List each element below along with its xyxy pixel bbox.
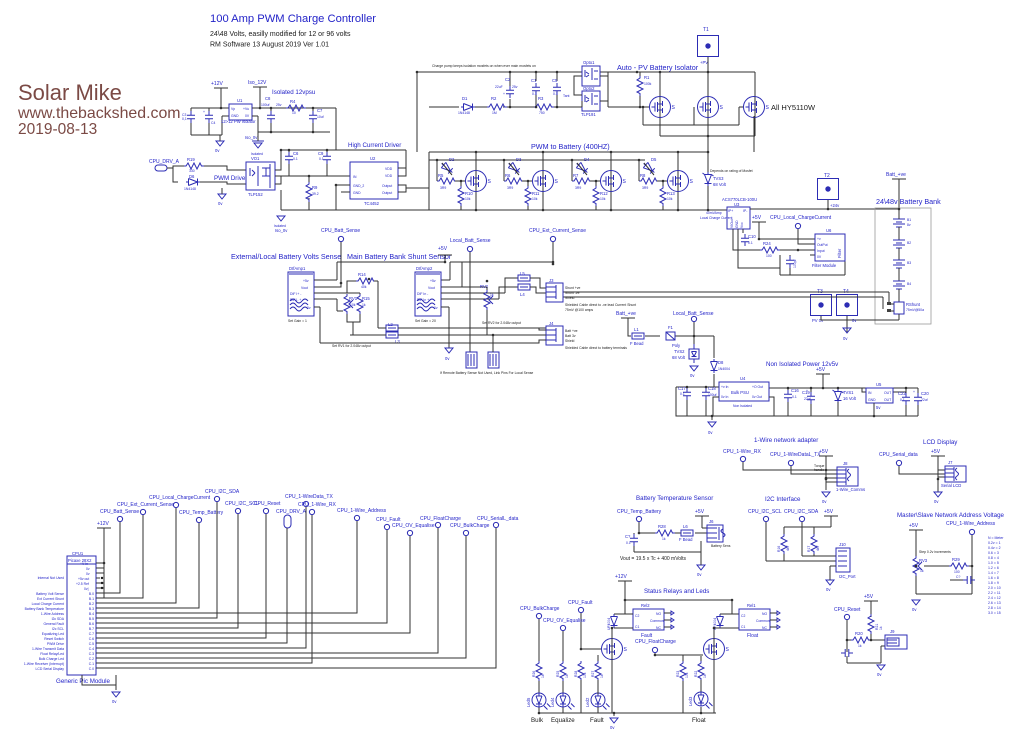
svg-text:C16: C16 xyxy=(791,388,799,393)
svg-text:10k: 10k xyxy=(532,197,538,201)
diode D7 flyback xyxy=(717,614,724,628)
svg-text:+O Out: +O Out xyxy=(752,385,763,389)
wire i2c xyxy=(766,522,836,561)
svg-text:0.6 = 3: 0.6 = 3 xyxy=(988,551,999,555)
svg-text:+5V: +5V xyxy=(819,449,829,455)
resistor R3 xyxy=(534,104,554,110)
wire fet1 group xyxy=(437,152,476,210)
svg-text:100 Amp PWM Charge Controller: 100 Amp PWM Charge Controller xyxy=(210,13,376,25)
svg-text:C.5: C.5 xyxy=(89,642,94,646)
IC U4 bulk psu xyxy=(719,382,769,401)
svg-text:R19: R19 xyxy=(187,157,195,162)
svg-text:GND_2: GND_2 xyxy=(353,184,364,188)
svg-text:0v: 0v xyxy=(934,499,939,504)
svg-text:Set Gain = 20: Set Gain = 20 xyxy=(415,319,436,323)
svg-text:C5: C5 xyxy=(552,78,558,83)
ground T4 xyxy=(843,328,851,333)
svg-text:LCD Display: LCD Display xyxy=(923,439,958,446)
svg-text:C20: C20 xyxy=(921,391,929,396)
svg-text:C6: C6 xyxy=(293,151,299,156)
IC U5 regulator xyxy=(866,388,893,403)
svg-text:16 Volt: 16 Volt xyxy=(843,396,857,401)
svg-text:CPU_Ext_Current_Sense: CPU_Ext_Current_Sense xyxy=(529,228,586,234)
svg-text:CPU_Serial_data: CPU_Serial_data xyxy=(879,452,918,458)
svg-text:+5V: +5V xyxy=(931,449,941,455)
svg-text:Filter: Filter xyxy=(837,248,842,258)
svg-text:10k: 10k xyxy=(465,197,471,201)
svg-text:R15: R15 xyxy=(362,296,370,301)
resistor R21 xyxy=(868,614,874,634)
svg-text:NC: NC xyxy=(762,626,767,630)
svg-text:U3: U3 xyxy=(734,202,740,207)
svg-text:ACS770LCB-100U: ACS770LCB-100U xyxy=(722,197,757,202)
wire pwm bottom rail xyxy=(429,209,727,211)
svg-text:CPU1: CPU1 xyxy=(72,551,84,556)
svg-text:0.1: 0.1 xyxy=(748,241,753,245)
ground tvs2 xyxy=(690,366,698,371)
svg-text:CPU_Fault: CPU_Fault xyxy=(568,600,593,606)
wire U2 gnd pins xyxy=(336,185,350,210)
shunt RShunt xyxy=(894,302,904,314)
wire fan b5 xyxy=(96,502,217,618)
ground temp xyxy=(697,565,705,570)
wire fet2 group xyxy=(504,152,543,210)
svg-text:Rel1: Rel1 xyxy=(747,603,756,608)
svg-text:Input: Input xyxy=(817,249,825,253)
wire isolator gate bus xyxy=(608,72,755,136)
svg-text:R25: R25 xyxy=(556,671,560,677)
svg-text:4k7: 4k7 xyxy=(816,545,820,551)
svg-text:1k: 1k xyxy=(362,303,366,307)
wire fan c2 xyxy=(96,536,466,658)
battery B2 xyxy=(893,240,905,248)
svg-text:CPU_Ext_Current_Sense: CPU_Ext_Current_Sense xyxy=(117,502,174,508)
capacitor C8 xyxy=(267,111,275,123)
svg-text:Generic Pic Module: Generic Pic Module xyxy=(56,678,111,685)
svg-text:40k: 40k xyxy=(361,285,367,289)
wire batt sense to amp1 vout xyxy=(314,242,341,287)
svg-text:+PV: +PV xyxy=(700,60,708,65)
wire batt feed xyxy=(628,321,714,387)
connector J6 battery sens xyxy=(707,525,723,542)
svg-text:D6: D6 xyxy=(189,174,195,179)
U1 dc-dc isolator xyxy=(229,104,252,120)
svg-text:Local Charge Current: Local Charge Current xyxy=(32,602,64,606)
svg-text:1N4148: 1N4148 xyxy=(458,111,470,115)
wire fan c4 xyxy=(96,507,306,648)
svg-text:+24v: +24v xyxy=(830,203,840,208)
wire U2 vdd pins xyxy=(398,150,406,176)
svg-text:Set RV2 for 2.048v output: Set RV2 for 2.048v output xyxy=(482,321,521,325)
relay Rel1 xyxy=(739,609,770,630)
svg-text:5v: 5v xyxy=(876,405,881,410)
svg-text:Master\Slave Network Address V: Master\Slave Network Address Voltage xyxy=(897,512,1005,519)
svg-text:10uf: 10uf xyxy=(317,115,324,119)
svg-text:24\48 Volts, easilly modified: 24\48 Volts, easilly modified for 12 or … xyxy=(210,31,351,38)
svg-text:GND: GND xyxy=(735,220,739,228)
svg-text:0v: 0v xyxy=(690,373,695,378)
svg-text:R12: R12 xyxy=(600,191,608,196)
svg-text:Vout: Vout xyxy=(428,286,435,290)
wire fan c3 xyxy=(96,528,438,653)
connector J8 1-wire xyxy=(837,467,858,486)
resistor R8 xyxy=(639,178,659,184)
svg-text:2019-08-13: 2019-08-13 xyxy=(18,121,97,138)
svg-text:2.4 = 12: 2.4 = 12 xyxy=(988,596,1001,600)
svg-text:TLP152: TLP152 xyxy=(248,192,263,197)
svg-text:100: 100 xyxy=(766,254,772,258)
svg-text:Batt 3v: Batt 3v xyxy=(565,334,576,338)
svg-text:TLP191: TLP191 xyxy=(581,112,596,117)
svg-text:CPU_BulkCharge: CPU_BulkCharge xyxy=(450,523,490,529)
svg-text:0v: 0v xyxy=(86,567,90,571)
svg-text:1.8 = 9: 1.8 = 9 xyxy=(988,581,999,585)
svg-text:1k: 1k xyxy=(920,569,924,573)
svg-text:C2: C2 xyxy=(505,77,511,82)
svg-text:D3: D3 xyxy=(516,157,522,162)
resistor R15 xyxy=(357,294,363,314)
svg-text:Equalize: Equalize xyxy=(551,717,575,724)
wire psu top rail xyxy=(676,374,918,397)
svg-text:VDD: VDD xyxy=(385,174,393,178)
svg-text:R7: R7 xyxy=(573,173,579,178)
svg-text:CPU_1-Wire_RX: CPU_1-Wire_RX xyxy=(298,502,336,508)
svg-text:B.0: B.0 xyxy=(89,592,94,596)
wire drv input xyxy=(167,166,246,184)
svg-text:Iso_12V: Iso_12V xyxy=(248,80,267,86)
diode D8 xyxy=(711,359,718,373)
svg-text:F1: F1 xyxy=(668,325,674,330)
svg-text:General Fault: General Fault xyxy=(43,622,64,626)
svg-text:R1: R1 xyxy=(644,75,650,80)
svg-text:GND: GND xyxy=(868,398,876,402)
svg-text:Filter Module: Filter Module xyxy=(812,263,837,268)
svg-text:VO1: VO1 xyxy=(251,156,260,161)
capacitor C7 xyxy=(309,111,317,123)
svg-text:R10: R10 xyxy=(465,191,473,196)
svg-text:CPU_DRV_A: CPU_DRV_A xyxy=(149,159,180,165)
svg-text:+5V: +5V xyxy=(695,509,705,515)
svg-text:High Current Driver: High Current Driver xyxy=(348,142,401,149)
svg-text:CPU_Reset: CPU_Reset xyxy=(834,607,861,613)
svg-text:CPU_Temp_Battery: CPU_Temp_Battery xyxy=(617,509,662,515)
transistor Q9 xyxy=(602,639,628,660)
svg-text:C.3: C.3 xyxy=(89,652,94,656)
wire fan b4 xyxy=(96,521,357,613)
wire fan b7 xyxy=(96,514,238,628)
svg-text:1-Wire network adapter: 1-Wire network adapter xyxy=(754,437,818,444)
svg-text:+v In: +v In xyxy=(721,385,729,389)
svg-text:J6: J6 xyxy=(709,519,714,524)
connector T6 xyxy=(488,352,499,368)
svg-text:Iso_0v: Iso_0v xyxy=(275,228,288,233)
ground cpu xyxy=(112,692,120,697)
svg-text:+: + xyxy=(503,92,505,96)
resistor R28 xyxy=(655,530,675,536)
svg-text:I2c SDA: I2c SDA xyxy=(52,617,65,621)
svg-text:Iso_0v: Iso_0v xyxy=(245,135,258,140)
svg-text:C9: C9 xyxy=(318,151,324,156)
svg-text:C2: C2 xyxy=(635,614,639,618)
diode D6 xyxy=(186,179,200,186)
svg-text:CPU_Local_ChargeCurrent: CPU_Local_ChargeCurrent xyxy=(770,215,832,221)
svg-text:100pf: 100pf xyxy=(793,259,797,268)
svg-text:B1: B1 xyxy=(907,218,911,222)
wire shunt sense pair xyxy=(563,292,889,309)
wire reset xyxy=(847,607,885,663)
svg-text:R29: R29 xyxy=(952,557,960,562)
svg-text:Ext Current Shunt: Ext Current Shunt xyxy=(37,597,64,601)
svg-text:CPU_1-WireDataL_TX: CPU_1-WireDataL_TX xyxy=(770,452,821,458)
svg-text:C?: C? xyxy=(625,534,631,539)
resistor R1 xyxy=(637,76,643,96)
opto Opto1 xyxy=(582,66,600,86)
svg-text:4k7: 4k7 xyxy=(786,545,790,551)
svg-text:R14: R14 xyxy=(358,272,366,277)
svg-text:2.0 = 10: 2.0 = 10 xyxy=(988,586,1001,590)
svg-text:GND: GND xyxy=(353,191,361,195)
svg-text:1k: 1k xyxy=(600,674,604,678)
wire status bottom rail xyxy=(539,713,716,716)
svg-text:J3: J3 xyxy=(549,278,554,283)
svg-text:25v: 25v xyxy=(276,103,282,107)
svg-text:0.2v = 1: 0.2v = 1 xyxy=(988,541,1001,545)
svg-text:CPU_FloatCharge: CPU_FloatCharge xyxy=(635,639,676,645)
svg-text:I2C_Port: I2C_Port xyxy=(839,574,856,579)
svg-text:C.2: C.2 xyxy=(89,657,94,661)
svg-text:Non Isolated Power 12v5v: Non Isolated Power 12v5v xyxy=(766,361,839,368)
svg-text:Bulk Charge Led: Bulk Charge Led xyxy=(39,657,64,661)
capacitor C10 xyxy=(741,234,749,246)
svg-text:1k: 1k xyxy=(490,293,494,297)
resistor R27 xyxy=(595,661,601,681)
transistor Q5 xyxy=(668,171,694,192)
svg-text:10k: 10k xyxy=(350,303,356,307)
svg-text:0v|: 0v| xyxy=(84,587,89,591)
ground i2c xyxy=(826,580,834,585)
wire fet3 group xyxy=(572,152,611,210)
wire pwm top buses xyxy=(429,116,754,210)
wire addr network xyxy=(916,535,972,594)
svg-text:Battery Volt Sense: Battery Volt Sense xyxy=(36,592,64,596)
resistor R17 xyxy=(811,534,817,554)
svg-text:0.1: 0.1 xyxy=(319,157,324,161)
svg-text:1.2 = 6: 1.2 = 6 xyxy=(988,566,999,570)
svg-text:F Bead: F Bead xyxy=(679,537,693,542)
svg-text:Opto1: Opto1 xyxy=(583,60,595,65)
svg-text:+: + xyxy=(203,110,205,114)
svg-text:J8: J8 xyxy=(843,461,848,466)
svg-text:Output: Output xyxy=(382,184,392,188)
svg-text:Batt_+ve: Batt_+ve xyxy=(616,311,636,317)
svg-text:CPU_I2C_SCL: CPU_I2C_SCL xyxy=(748,509,782,515)
svg-text:Common: Common xyxy=(756,619,770,623)
svg-text:Solar Mike: Solar Mike xyxy=(18,80,122,105)
svg-text:handle: handle xyxy=(814,468,824,472)
svg-text:R17: R17 xyxy=(807,546,811,552)
svg-text:B.1: B.1 xyxy=(89,597,94,601)
svg-text:0.1: 0.1 xyxy=(293,157,298,161)
wire rv1 loop xyxy=(347,293,360,335)
svg-text:Reset Switch: Reset Switch xyxy=(44,637,64,641)
svg-text:B.6: B.6 xyxy=(89,622,94,626)
svg-text:Local_Batt_Sense: Local_Batt_Sense xyxy=(450,238,491,244)
diode D9 flyback xyxy=(611,614,618,628)
svg-text:0v: 0v xyxy=(86,572,90,576)
svg-text:NO: NO xyxy=(656,612,661,616)
wire fan b3 xyxy=(96,523,199,608)
ground reset xyxy=(877,665,885,670)
svg-text:Battery Temperature Sensor: Battery Temperature Sensor xyxy=(636,495,713,502)
svg-text:B4: B4 xyxy=(907,282,911,286)
svg-text:100k: 100k xyxy=(644,82,652,86)
svg-text:Vout = 19.5 x Tc + 400 mVolts: Vout = 19.5 x Tc + 400 mVolts xyxy=(620,556,687,562)
svg-text:TVS3: TVS3 xyxy=(713,176,724,181)
svg-text:R11: R11 xyxy=(532,191,540,196)
svg-text:R28: R28 xyxy=(658,524,666,529)
svg-text:IP-: IP- xyxy=(743,209,747,213)
svg-text:U1: U1 xyxy=(237,98,243,103)
svg-text:CPU_BulkCharge: CPU_BulkCharge xyxy=(520,606,560,612)
svg-text:C2: C2 xyxy=(741,614,745,618)
svg-text:Batt +ve: Batt +ve xyxy=(565,329,578,333)
svg-text:0.1: 0.1 xyxy=(900,398,905,402)
capacitor C24 xyxy=(841,649,853,657)
inductor L1 xyxy=(632,333,644,339)
svg-text:1-Wire Transmit Data: 1-Wire Transmit Data xyxy=(32,647,64,651)
wire fan c5 xyxy=(96,528,287,643)
svg-text:C4: C4 xyxy=(211,121,215,125)
svg-text:J9: J9 xyxy=(890,629,895,634)
svg-text:1k: 1k xyxy=(879,626,883,630)
capacitor C3 input xyxy=(187,111,195,123)
battery B4 xyxy=(893,281,905,289)
svg-text:L5: L5 xyxy=(520,271,525,276)
transistor Q4 xyxy=(601,171,627,192)
svg-text:R3: R3 xyxy=(538,96,544,101)
svg-text:Fault: Fault xyxy=(590,717,604,724)
wire psu bottom rail xyxy=(676,387,918,420)
capacitor C9 xyxy=(323,152,331,164)
svg-text:Bulk PSU: Bulk PSU xyxy=(731,390,749,395)
svg-text:Internal Not Used: Internal Not Used xyxy=(38,576,64,580)
svg-text:R2: R2 xyxy=(491,96,497,101)
svg-text:R4: R4 xyxy=(290,99,296,104)
svg-text:UF4004: UF4004 xyxy=(607,618,611,630)
transistor Q8 isolator fet3 xyxy=(744,97,770,118)
svg-text:+5V: +5V xyxy=(752,215,762,221)
svg-text:Non Isolated: Non Isolated xyxy=(733,404,752,408)
wire U3 to battery rail xyxy=(750,182,899,209)
svg-text:C22: C22 xyxy=(898,391,906,396)
svg-text:C7: C7 xyxy=(317,108,323,113)
svg-text:Battery Bank Temperature: Battery Bank Temperature xyxy=(25,607,64,611)
wire J4 rows xyxy=(320,328,546,343)
svg-text:Shield: Shield xyxy=(565,296,575,300)
svg-text:1.6 = 8: 1.6 = 8 xyxy=(988,576,999,580)
svg-text:+v: +v xyxy=(817,237,821,241)
svg-text:CPU_Reset: CPU_Reset xyxy=(254,501,281,507)
svg-text:R27: R27 xyxy=(591,671,595,677)
ground psu 0v xyxy=(216,141,224,146)
wire temp sensor xyxy=(634,522,707,552)
IC U6 filter module xyxy=(815,234,845,261)
battery B1 xyxy=(893,219,905,227)
svg-text:D5: D5 xyxy=(651,157,657,162)
cpu left labels xyxy=(24,576,65,671)
wire status top rail xyxy=(614,587,739,614)
svg-text:0.1: 0.1 xyxy=(532,92,537,96)
svg-text:Vp: Vp xyxy=(231,107,235,111)
connector T5 xyxy=(466,352,477,368)
svg-text:C.6: C.6 xyxy=(89,637,94,641)
svg-text:CPU_1-WireData_TX: CPU_1-WireData_TX xyxy=(285,494,333,500)
iso amp U8 DIfAmp2 xyxy=(415,272,441,316)
svg-text:GND: GND xyxy=(231,114,239,118)
svg-text:Tant: Tant xyxy=(563,94,569,98)
relay Rel2 xyxy=(633,609,664,630)
svg-text:PWM to Battery (400HZ): PWM to Battery (400HZ) xyxy=(531,142,610,151)
svg-text:B.7: B.7 xyxy=(89,627,94,631)
svg-text:+5V: +5V xyxy=(438,246,448,252)
svg-text:R22: R22 xyxy=(694,671,698,677)
iso amp U7 DIfAmp1 xyxy=(288,272,314,316)
capacitor C18 xyxy=(702,388,710,400)
LED Led5 bulk xyxy=(532,693,551,710)
wire L2 L3 runs xyxy=(350,328,546,335)
svg-text:Auto - PV Battery Isolator: Auto - PV Battery Isolator xyxy=(617,63,699,72)
svg-text:B2: B2 xyxy=(907,241,911,245)
inductor L6 xyxy=(681,530,693,536)
pot RV1 xyxy=(344,294,353,314)
cpu pin rows xyxy=(96,563,100,588)
resistor R26 xyxy=(536,661,542,681)
svg-text:0.8 = 4: 0.8 = 4 xyxy=(988,556,999,560)
wire T1 down xyxy=(707,57,709,152)
capacitor C1 xyxy=(532,83,540,95)
svg-text:U6: U6 xyxy=(826,228,832,233)
svg-text:C.4: C.4 xyxy=(89,647,94,651)
svg-text:+: + xyxy=(913,390,915,394)
svg-text:J4: J4 xyxy=(549,321,554,326)
svg-text:TVS1: TVS1 xyxy=(843,390,854,395)
svg-text:Shunt +ve: Shunt +ve xyxy=(565,286,580,290)
svg-text:Set Gain = 1: Set Gain = 1 xyxy=(288,319,307,323)
wire L5 L4 to J3 xyxy=(530,278,546,293)
svg-text:PWM Drive: PWM Drive xyxy=(214,175,246,182)
svg-text:TVS2: TVS2 xyxy=(674,349,685,354)
connector J9 reset switch xyxy=(885,635,907,649)
svg-text:0v Out: 0v Out xyxy=(752,395,762,399)
wire fet4 group xyxy=(639,152,678,210)
battery bank box xyxy=(875,208,931,324)
wire psu input loop xyxy=(191,94,229,135)
transistor Q10 xyxy=(704,639,730,660)
ground addr xyxy=(912,600,920,605)
svg-text:1k: 1k xyxy=(858,644,862,648)
svg-text:+V In: +V In xyxy=(80,562,88,566)
svg-text:Equalizing Led: Equalizing Led xyxy=(42,632,64,636)
svg-text:0v: 0v xyxy=(843,336,848,341)
svg-text:+12V: +12V xyxy=(615,574,627,580)
ground iso xyxy=(277,216,285,221)
svg-text:PWM Drive: PWM Drive xyxy=(47,642,64,646)
svg-text:0.1: 0.1 xyxy=(680,392,685,396)
wire fan c7 xyxy=(96,536,410,633)
transistor Q7 isolator fet2 xyxy=(698,97,724,118)
svg-text:68 Volt: 68 Volt xyxy=(713,182,727,187)
resistor R20 xyxy=(851,637,871,643)
